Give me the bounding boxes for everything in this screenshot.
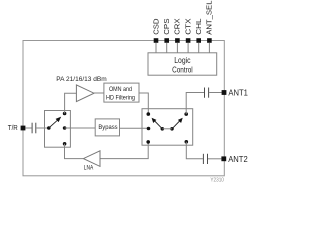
node SW1 throw bypass	[63, 126, 67, 130]
switch SW1 (SP3T T/R switch)	[45, 111, 71, 148]
wire CRX to logic	[176, 43, 178, 53]
SW1 wiper arrow	[49, 117, 61, 128]
module outline (chip boundary)	[23, 41, 224, 176]
svg-text:ANT_SEL: ANT_SEL	[205, 1, 214, 35]
wire CTX to logic	[187, 43, 189, 53]
svg-text:Bypass: Bypass	[98, 124, 118, 131]
svg-text:CPS: CPS	[162, 19, 171, 35]
pin ANT1	[222, 88, 249, 97]
node SW1 common	[47, 126, 51, 130]
node SW2 TX contact	[147, 112, 151, 116]
svg-text:HD Filtering: HD Filtering	[106, 94, 135, 101]
node SW2 pole A	[161, 127, 165, 131]
switch SW2 (antenna select DPDT)	[142, 109, 193, 146]
wire SW1 bypass throw to bypass block	[65, 127, 96, 129]
wire bypass block to SW2	[120, 127, 149, 129]
wire CSD to logic	[155, 43, 157, 53]
node SW2 RX contact	[146, 140, 150, 144]
node SW2 pole B	[170, 127, 174, 131]
wire SW2 pole link	[162, 128, 172, 130]
pin ANT2	[221, 155, 248, 164]
pin CPS	[162, 19, 171, 43]
pin ANT_SEL	[205, 1, 214, 43]
wire SW1 TX throw up to PA	[65, 93, 77, 113]
pin T/R	[8, 123, 26, 132]
wire SW2 RX contact down to LNA input	[100, 142, 148, 159]
capacitor C3 (ANT2 dc block)	[203, 154, 207, 164]
svg-text:LNA: LNA	[84, 165, 94, 172]
svg-text:PA 21/16/13 dBm: PA 21/16/13 dBm	[56, 76, 107, 83]
bypass block	[95, 119, 119, 136]
svg-text:T/R: T/R	[8, 123, 18, 132]
svg-text:Y2310: Y2310	[210, 178, 224, 184]
capacitor C2 (ANT1 dc block)	[205, 88, 209, 98]
capacitor C1 (T/R dc block)	[32, 123, 36, 134]
node SW2 ANT2 contact	[185, 140, 189, 144]
svg-text:CSD: CSD	[151, 18, 160, 35]
wire ANT_SEL to logic	[208, 43, 210, 53]
wire LNA output to SW1 RX throw	[65, 144, 84, 159]
wire CHL to logic	[198, 43, 200, 53]
pin CSD	[151, 18, 160, 43]
wire PA to OMN	[94, 92, 104, 94]
pin CHL	[194, 19, 203, 43]
pin CRX	[173, 19, 182, 43]
svg-text:Control: Control	[172, 64, 193, 74]
svg-text:ANT1: ANT1	[228, 88, 248, 97]
wire T/R to C1	[25, 127, 31, 129]
wire CPS to logic	[166, 43, 168, 53]
node SW2 bypass contact	[147, 127, 151, 131]
pin CTX	[183, 19, 192, 43]
node SW1 throw RX	[63, 142, 67, 146]
SW2 wiper arrow B	[172, 118, 183, 129]
node SW2 ANT1 contact	[184, 112, 188, 116]
SW2 wiper arrow A	[152, 118, 163, 129]
wire C2 to ANT1 pin	[209, 92, 222, 94]
wire OMN to SW2 TX contact	[139, 93, 148, 114]
wire C1 to SW1 common	[36, 127, 49, 129]
wire C3 to ANT2 pin	[208, 158, 221, 160]
svg-text:ANT2: ANT2	[228, 155, 248, 164]
svg-text:OMN and: OMN and	[109, 86, 132, 93]
filter block OMN/HD	[104, 83, 139, 102]
node SW1 throw TX	[63, 112, 67, 116]
wire SW2 ANT1 contact to C2	[186, 93, 204, 115]
logic control block U1	[148, 53, 217, 75]
op-amp PA (power amplifier)	[76, 85, 94, 102]
op-amp LNA (low noise amplifier)	[83, 151, 100, 167]
svg-text:CTX: CTX	[183, 19, 192, 35]
wire SW2 ANT2 contact to C3	[186, 142, 203, 159]
svg-text:CRX: CRX	[173, 19, 182, 35]
svg-text:CHL: CHL	[194, 19, 203, 35]
